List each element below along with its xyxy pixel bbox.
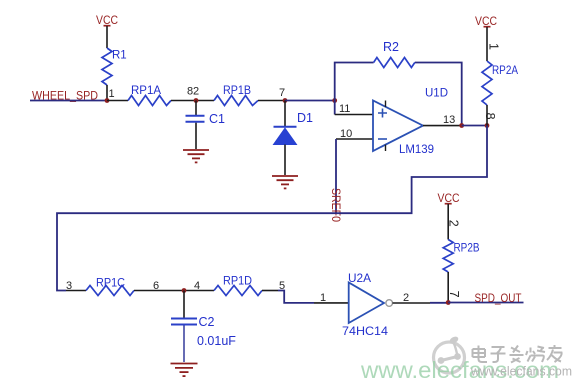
node junction (output / feedback right) — [459, 123, 464, 128]
svg-text:RP2B: RP2B — [454, 241, 480, 255]
pin wire output 2 (U2A) — [393, 302, 431, 304]
svg-text:RP1B: RP1B — [223, 83, 251, 97]
wire to SPD_OUT node — [430, 302, 448, 304]
power VCC (top-left, for R1) — [96, 13, 118, 27]
capacitor C2 — [171, 315, 236, 348]
wire R1 to node — [106, 85, 108, 101]
resistor RP2A — [482, 61, 492, 105]
svg-text:LM139: LM139 — [399, 142, 434, 156]
wire feedback loop left/top/right — [335, 63, 462, 126]
svg-text:11: 11 — [339, 103, 350, 115]
svg-text:1: 1 — [486, 43, 500, 50]
wire node to RP1A — [107, 100, 128, 102]
resistor RP1B — [214, 96, 258, 106]
power VCC (top-right, for RP2A) — [475, 14, 497, 28]
watermark chinese — [473, 345, 562, 363]
node junction (C1 tap) — [194, 98, 199, 103]
wire SREF0 vertical — [335, 139, 337, 213]
wire output feedback to bottom row — [57, 126, 487, 291]
svg-text:RP1A: RP1A — [131, 83, 161, 97]
svg-text:1: 1 — [109, 88, 115, 100]
svg-text:2: 2 — [193, 86, 199, 98]
node junction (RP2A bottom) — [485, 123, 490, 128]
node junction (C2 tap) — [182, 288, 187, 293]
svg-text:U2A: U2A — [348, 271, 371, 285]
node junction (SPD_OUT) — [446, 300, 451, 305]
svg-text:SREF0: SREF0 — [329, 188, 343, 222]
svg-text:U1D: U1D — [425, 86, 448, 100]
bottom row: wire to RP1C — [66, 290, 86, 292]
wire RP1B to D1 node — [258, 100, 285, 102]
svg-text:R1: R1 — [112, 50, 127, 62]
wire RP2B to node — [447, 272, 449, 303]
op-amp U1D — [373, 86, 448, 157]
ground (below C1) — [183, 150, 209, 162]
wire D1 node to op-amp branch — [285, 100, 335, 102]
wire WHEEL_SPD — [30, 100, 107, 102]
svg-text:8: 8 — [483, 113, 497, 120]
resistor RP1C — [86, 286, 134, 296]
node junction (feedback left) — [332, 98, 337, 103]
wire VCC to RP2A — [486, 27, 488, 61]
ground (below C2) — [171, 364, 198, 377]
pin wire 11 — [335, 114, 373, 116]
wire RP1C to RP1D — [134, 290, 214, 292]
pin wire 10 — [336, 138, 373, 140]
wire RP1D to U2A input — [262, 290, 278, 292]
svg-text:D1: D1 — [297, 111, 313, 125]
wire VCC to R1 — [106, 26, 108, 48]
svg-text:1: 1 — [320, 292, 326, 304]
wire output to RP2A node — [462, 125, 487, 127]
svg-text:10: 10 — [340, 128, 352, 140]
wire node to C1 — [195, 101, 197, 116]
resistor RP2B — [443, 240, 453, 272]
svg-text:RP2A: RP2A — [492, 63, 518, 77]
svg-text:7: 7 — [279, 87, 285, 99]
svg-text:RP1D: RP1D — [223, 274, 252, 288]
svg-text:0.01uF: 0.01uF — [197, 334, 236, 348]
svg-text:C1: C1 — [209, 112, 225, 126]
wire C2 tap down — [183, 291, 185, 318]
watermark logo circle — [434, 335, 465, 373]
node junction (WHEEL_SPD / R1) — [105, 98, 110, 103]
resistor R1 — [102, 48, 112, 85]
svg-text:www.elecfans.com: www.elecfans.com — [470, 365, 572, 379]
svg-text:74HC14: 74HC14 — [342, 324, 388, 338]
wire C2 to ground — [183, 326, 185, 363]
wire C1 to ground — [195, 123, 197, 149]
resistor RP1D — [214, 286, 262, 296]
resistor RP1A — [128, 96, 171, 106]
wire RP1A to C1 node — [171, 100, 214, 102]
svg-text:3: 3 — [66, 280, 72, 292]
svg-text:2: 2 — [446, 220, 460, 227]
svg-text:C2: C2 — [199, 315, 215, 329]
svg-text:2: 2 — [403, 292, 409, 304]
svg-text:RP1C: RP1C — [96, 276, 125, 290]
capacitor C1 — [186, 112, 226, 126]
svg-text:4: 4 — [194, 280, 200, 292]
diode D1 — [274, 111, 314, 145]
node junction (D1 tap) — [283, 98, 288, 103]
ground (below D1) — [272, 176, 298, 188]
wire RP2A to node — [486, 105, 488, 126]
resistor R2 — [374, 58, 415, 68]
power VCC (for RP2B) — [438, 191, 460, 205]
svg-text:R2: R2 — [383, 40, 399, 54]
svg-text:SPD_OUT: SPD_OUT — [475, 291, 523, 305]
wire D1 to ground — [284, 145, 286, 176]
wire node to D1 — [284, 101, 286, 127]
wire SPD_OUT — [448, 302, 523, 304]
wire VCC to RP2B — [447, 204, 449, 240]
inverter U2A — [342, 271, 393, 338]
svg-text:13: 13 — [443, 114, 455, 126]
pin wire output 13 — [423, 125, 462, 127]
